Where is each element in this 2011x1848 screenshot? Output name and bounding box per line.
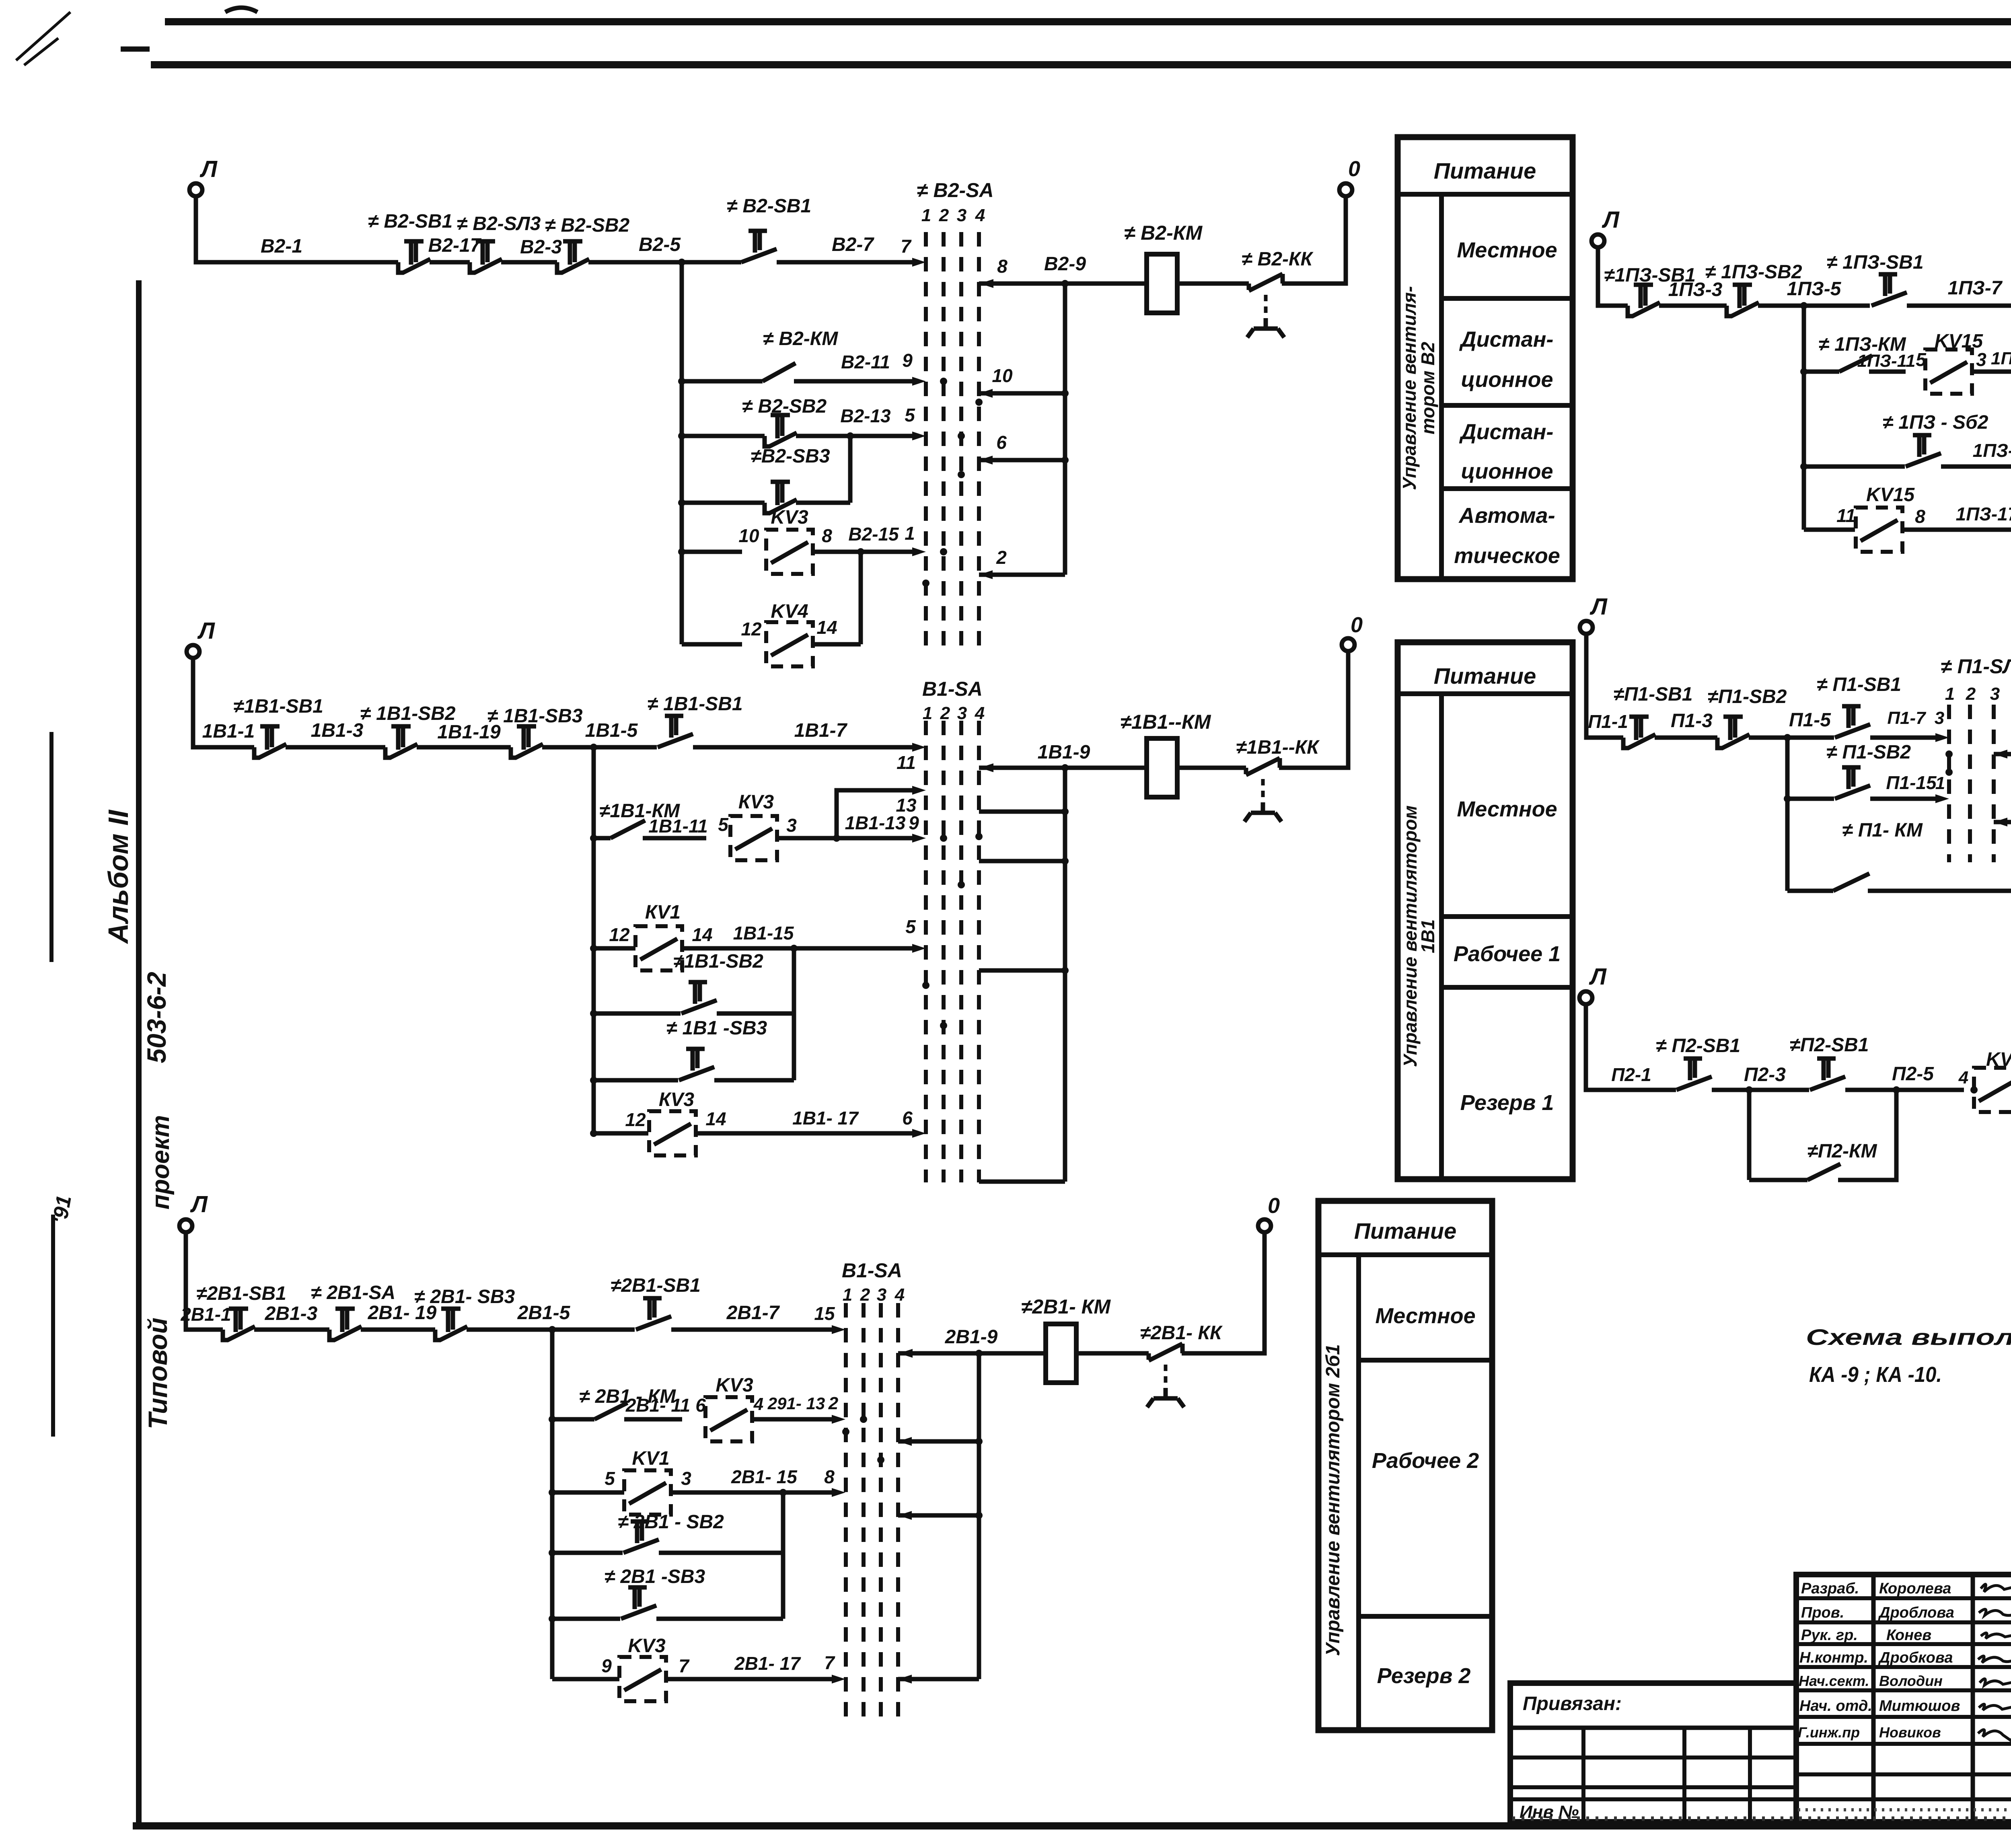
svg-text:3: 3 — [957, 206, 966, 225]
svg-text:Местное: Местное — [1457, 238, 1557, 262]
svg-text:ционное: ционное — [1461, 368, 1553, 392]
svg-text:≠ П1-SВ1: ≠ П1-SВ1 — [1817, 674, 1901, 695]
svg-text:КV3: КV3 — [659, 1089, 695, 1110]
svg-text:KV1: KV1 — [632, 1448, 669, 1469]
wire node 13 branch — [837, 786, 926, 838]
wire 1ПЗ-5 — [1758, 278, 1870, 309]
svg-text:≠2В1- КМ: ≠2В1- КМ — [1021, 1295, 1111, 1318]
svg-text:≠1В1-SВ2: ≠1В1-SВ2 — [673, 951, 763, 972]
svg-text:Резерв 2: Резерв 2 — [1377, 1664, 1471, 1688]
svg-text:≠ П1- КМ: ≠ П1- КМ — [1842, 820, 1923, 841]
svg-text:≠ В2-КМ: ≠ В2-КМ — [1124, 222, 1203, 244]
svg-text:2В1-3: 2В1-3 — [265, 1303, 318, 1324]
pushbutton В2-SB1 start (NO) — [727, 195, 811, 262]
svg-text:2В1- 17: 2В1- 17 — [734, 1653, 801, 1674]
svg-text:KV3: KV3 — [716, 1375, 753, 1396]
svg-text:тором В2: тором В2 — [1417, 341, 1438, 434]
svg-text:9: 9 — [601, 1655, 612, 1676]
svg-text:1: 1 — [1935, 773, 1945, 793]
svg-text:KV15: KV15 — [1866, 484, 1915, 506]
contact П2-КМ self-hold — [1749, 1090, 1896, 1180]
svg-text:4: 4 — [975, 206, 985, 225]
svg-text:14: 14 — [705, 1108, 726, 1129]
svg-text:5: 5 — [718, 814, 729, 835]
pushbutton 1ПЗ-SB2 (NC) — [1705, 261, 1802, 317]
wire 1ПЗ-17 — [1902, 503, 2011, 534]
pins 1 2 3 4 of В1-SA — [923, 703, 985, 723]
wire П2-3 — [1712, 1064, 1809, 1094]
svg-text:≠2В1- КК: ≠2В1- КК — [1140, 1322, 1223, 1344]
wire В2-11 — [794, 350, 926, 386]
wire КК to node 0 (1В1) — [1279, 650, 1348, 768]
svg-text:291- 13: 291- 13 — [767, 1394, 825, 1413]
contactor coil 1В1-КМ — [1121, 711, 1211, 797]
svg-text:В2-15: В2-15 — [848, 524, 899, 545]
svg-text:0: 0 — [1348, 157, 1360, 181]
staff row Разраб. Королева — [1801, 1580, 2011, 1597]
svg-text:КV3: КV3 — [738, 791, 774, 813]
svg-text:11: 11 — [1836, 505, 1856, 526]
switch В1-SA dashed columns (1В1) — [926, 721, 979, 1182]
relay contact KV14 (П2) — [1958, 1049, 2011, 1112]
node Л (2В1) — [179, 1191, 208, 1232]
wire KV1-SB2-SB3 link — [792, 948, 796, 1080]
wire SB2-SB3 link — [848, 436, 853, 503]
table В2 vertical label — [1399, 286, 1438, 490]
wire 1ПЗ-11 — [1857, 349, 1927, 372]
svg-text:Пров.: Пров. — [1801, 1604, 1844, 1621]
svg-text:14: 14 — [692, 924, 712, 945]
junction dots on SA columns B2 — [922, 378, 983, 587]
svg-text:2: 2 — [940, 703, 950, 723]
svg-text:KV4: KV4 — [771, 601, 808, 622]
svg-text:В2-13: В2-13 — [840, 405, 891, 426]
svg-text:≠ 1В1-SВ1: ≠ 1В1-SВ1 — [647, 693, 742, 715]
svg-text:≠ В2-SB2: ≠ В2-SB2 — [545, 215, 630, 236]
svg-text:12: 12 — [625, 1109, 646, 1130]
svg-text:2: 2 — [939, 206, 949, 225]
svg-text:2В1-7: 2В1-7 — [726, 1302, 780, 1324]
svg-text:1В1- 17: 1В1- 17 — [792, 1108, 859, 1129]
svg-text:4: 4 — [753, 1394, 763, 1414]
svg-text:1В1-15: 1В1-15 — [733, 923, 794, 944]
svg-text:0: 0 — [1351, 613, 1363, 637]
wire right rung a (2В1) — [898, 1437, 983, 1446]
junction B2 bus — [678, 259, 685, 266]
staff row Нач.сект. Володин — [1799, 1673, 2011, 1689]
pushbutton 1В1-SB3 (NC) — [487, 705, 582, 758]
svg-text:В2-17: В2-17 — [428, 235, 482, 256]
svg-text:10: 10 — [738, 525, 759, 546]
pushbutton П1-SB2 (NC) — [1708, 686, 1787, 748]
table 2В1 vertical label — [1322, 1344, 1344, 1656]
node Л (П1) — [1580, 594, 1608, 634]
pushbutton П1-SB1 start (NO) — [1817, 674, 1901, 738]
staff row Н.контр. Дробкова — [1799, 1649, 2011, 1666]
wire П1-7 — [1870, 708, 1949, 742]
wire 2В1-7 — [671, 1302, 833, 1330]
svg-text:КV1: КV1 — [645, 902, 681, 923]
node Л (П2) — [1579, 964, 1607, 1004]
relay contact KV3 lower (1В1) — [590, 1089, 726, 1155]
svg-text:1В1-5: 1В1-5 — [585, 720, 638, 741]
svg-text:≠ 2В1-SА: ≠ 2В1-SА — [311, 1282, 395, 1303]
svg-text:2: 2 — [1966, 684, 1976, 704]
pins 1 2 3 4 of В2-SA — [921, 206, 985, 225]
wire right rung bottom (2В1) — [898, 1675, 979, 1684]
svg-text:Резерв 1: Резерв 1 — [1460, 1091, 1554, 1115]
svg-text:≠П2-КМ: ≠П2-КМ — [1807, 1141, 1877, 1162]
left bus 2В1 — [550, 1330, 555, 1679]
svg-text:KV3: KV3 — [771, 507, 808, 528]
staff row Нач.отд. Митюшов — [1799, 1698, 2011, 1714]
svg-text:7: 7 — [901, 236, 912, 257]
pushbutton 2В1-SB3 (NC) — [414, 1286, 515, 1340]
wire КМ to КК — [1177, 282, 1249, 286]
svg-text:Дистан-: Дистан- — [1459, 420, 1554, 444]
svg-text:П2-5: П2-5 — [1892, 1063, 1934, 1085]
node 8 / wire В2-9 — [979, 253, 1147, 288]
svg-text:15: 15 — [814, 1303, 835, 1324]
thermal relay В2-КК — [1242, 249, 1314, 337]
pushbutton 1В1-SB3 rung (NO) — [590, 1018, 794, 1084]
svg-text:2В1- 15: 2В1- 15 — [731, 1466, 798, 1487]
svg-text:0: 0 — [1268, 1194, 1280, 1218]
svg-text:П1-1: П1-1 — [1588, 711, 1628, 732]
wire В2-13 — [796, 405, 926, 440]
svg-text:Г.инж.пр: Г.инж.пр — [1798, 1724, 1860, 1741]
contactor coil 2В1-КМ — [1021, 1295, 1111, 1383]
svg-text:≠ П1-SЛ: ≠ П1-SЛ — [1941, 655, 2011, 678]
left bus П1 — [1785, 738, 1790, 891]
svg-text:1ПЗ-5: 1ПЗ-5 — [1787, 278, 1842, 300]
svg-text:'91: '91 — [48, 1194, 76, 1225]
node Л (1ПЗ) — [1592, 207, 1620, 247]
svg-text:≠ 2В1- SВ3: ≠ 2В1- SВ3 — [414, 1286, 515, 1307]
wire В2-15 — [813, 523, 926, 556]
svg-text:Л: Л — [199, 156, 218, 182]
svg-text:≠ П2-SВ1: ≠ П2-SВ1 — [1656, 1035, 1740, 1057]
pushbutton 2В1-SB1 (NC) — [196, 1283, 286, 1340]
wire right rung c — [979, 967, 1069, 974]
relay contact KV15 (1ПЗ rung) — [1925, 331, 1986, 394]
svg-text:6: 6 — [902, 1108, 913, 1129]
relay contact KV3 (2В1 rung) — [705, 1375, 763, 1441]
svg-text:Л: Л — [197, 618, 215, 644]
pushbutton 1ПЗ-SB2 rung (NO) — [1800, 412, 1988, 470]
svg-text:2: 2 — [996, 547, 1007, 568]
svg-text:2В1-9: 2В1-9 — [945, 1326, 998, 1348]
thermal relay 1В1-КК — [1236, 737, 1320, 822]
svg-text:9: 9 — [902, 350, 913, 371]
svg-text:1: 1 — [843, 1285, 852, 1305]
staff row Г.инж.пр. Новиков — [1798, 1724, 2011, 1741]
svg-text:1: 1 — [905, 523, 915, 544]
svg-text:1ПЗ-7: 1ПЗ-7 — [1948, 278, 2003, 299]
svg-text:ционное: ционное — [1461, 459, 1553, 483]
contact 1В1-КМ self-hold — [590, 800, 680, 842]
svg-text:1В1: 1В1 — [1417, 919, 1438, 953]
left bus П2 — [1747, 1090, 1752, 1180]
svg-text:8: 8 — [822, 525, 832, 546]
pushbutton П1-SB1 (NC) — [1614, 684, 1693, 748]
staff signatures — [1978, 1584, 2011, 1741]
contactor coil В2-КМ — [1124, 222, 1203, 313]
wire Л to rail 2В1 — [186, 1231, 223, 1330]
svg-text:тическое: тическое — [1454, 544, 1560, 568]
wire В2-5 — [588, 234, 741, 262]
svg-text:Типовой: Типовой — [143, 1318, 173, 1429]
svg-text:5: 5 — [605, 1468, 615, 1489]
svg-text:4: 4 — [894, 1285, 905, 1305]
wire 1В1-17 — [696, 1108, 926, 1138]
relay contact KV3 (1В1 rung) — [730, 791, 797, 860]
switch В2-SA dashed columns — [926, 232, 979, 656]
svg-text:≠П2-SВ1: ≠П2-SВ1 — [1790, 1034, 1869, 1056]
relay contact KV1 (2В1) — [549, 1448, 691, 1515]
svg-text:1ПЗ-17: 1ПЗ-17 — [1956, 504, 2011, 524]
svg-text:≠ В2-SЛ3: ≠ В2-SЛ3 — [457, 213, 541, 234]
svg-text:Местное: Местное — [1457, 797, 1557, 821]
svg-text:Королева: Королева — [1879, 1580, 1951, 1597]
wire KV1-SB2-SB3 link (2В1) — [781, 1492, 785, 1619]
svg-text:1В1-11: 1В1-11 — [648, 816, 707, 837]
svg-text:≠ В2-КК: ≠ В2-КК — [1242, 249, 1314, 270]
svg-text:1В1-1: 1В1-1 — [202, 721, 255, 742]
wire 1В1-13 — [777, 812, 926, 843]
pushbutton 1ПЗ-SB1 start (NO) — [1826, 252, 1923, 306]
svg-text:Питание: Питание — [1434, 663, 1536, 689]
wire В2-3 — [501, 236, 562, 262]
svg-text:≠ В2-SB1: ≠ В2-SB1 — [727, 195, 811, 217]
svg-text:В1-SA: В1-SA — [842, 1259, 902, 1282]
wire П2-5 — [1845, 1063, 1964, 1094]
staff row Пров. Дроблова — [1801, 1604, 2011, 1621]
pushbutton В2-SB2 rung (NC) — [678, 396, 827, 447]
node 7 — [901, 236, 926, 267]
svg-text:8: 8 — [824, 1466, 835, 1487]
svg-text:≠П1-SВ1: ≠П1-SВ1 — [1614, 684, 1693, 705]
pushbutton 2В1-SA (NC) — [311, 1282, 395, 1340]
svg-text:1: 1 — [921, 206, 931, 225]
table В2 row Дистанционное 2 — [1459, 420, 1554, 483]
wire П1-3 — [1655, 710, 1717, 738]
svg-text:П1-3: П1-3 — [1671, 710, 1713, 732]
svg-text:Конев: Конев — [1886, 1627, 1931, 1644]
svg-text:П1-5: П1-5 — [1789, 709, 1831, 731]
svg-text:Володин: Володин — [1879, 1673, 1943, 1689]
svg-text:КА -9 ; КА -10.: КА -9 ; КА -10. — [1809, 1363, 1942, 1387]
wire 2В1-15 — [671, 1466, 845, 1497]
pushbutton 2В1-SB2 (NO) — [549, 1511, 783, 1556]
svg-text:≠ 1В1 -SВ3: ≠ 1В1 -SВ3 — [666, 1018, 767, 1039]
wire KV3-KV4 link — [859, 552, 863, 644]
svg-text:1В1-3: 1В1-3 — [311, 720, 364, 741]
svg-text:12: 12 — [741, 619, 762, 639]
svg-text:7: 7 — [824, 1652, 835, 1673]
pushbutton 1В1-SB2 (NC) — [360, 703, 455, 758]
wire right rung bottom — [979, 1180, 1065, 1184]
wire КМ to КК (2В1) — [1076, 1351, 1149, 1356]
node Л (1В1) — [187, 618, 215, 658]
wire Л to rail 1В1 — [193, 657, 254, 747]
svg-text:1ПЗ-11: 1ПЗ-11 — [1857, 351, 1916, 371]
svg-text:5: 5 — [905, 405, 915, 426]
wire 1ПЗ-13 — [1972, 349, 2011, 376]
pushbutton П2-SB1b (NO) — [1790, 1034, 1869, 1090]
wire right rung a — [979, 808, 1069, 815]
wire П1-5 — [1749, 709, 1834, 741]
svg-text:14: 14 — [816, 617, 837, 638]
svg-text:≠ П1-SВ2: ≠ П1-SВ2 — [1826, 742, 1911, 763]
svg-text:Питание: Питание — [1354, 1218, 1457, 1244]
svg-text:KV3: KV3 — [628, 1635, 666, 1657]
svg-text:Управление вентилятором 2б1: Управление вентилятором 2б1 — [1322, 1344, 1344, 1656]
svg-text:Местное: Местное — [1375, 1304, 1475, 1328]
right bus 2В1 — [977, 1353, 981, 1679]
wire 1В1-19 — [417, 722, 511, 747]
svg-text:3: 3 — [957, 703, 967, 723]
relay contact KV3 (B2) — [678, 507, 832, 574]
wire 1В1-9 — [979, 742, 1147, 772]
svg-text:В2-9: В2-9 — [1044, 253, 1086, 275]
wire П1-15 — [1870, 772, 1949, 803]
svg-text:Разраб.: Разраб. — [1801, 1580, 1859, 1597]
svg-text:2В1-1: 2В1-1 — [180, 1304, 231, 1325]
svg-text:≠2В1-SВ1: ≠2В1-SВ1 — [611, 1275, 701, 1296]
svg-text:Л: Л — [1589, 594, 1608, 620]
svg-text:4: 4 — [1958, 1068, 1968, 1087]
svg-text:11: 11 — [897, 752, 916, 773]
svg-text:В2-5: В2-5 — [639, 234, 681, 255]
wire В2-17 — [428, 235, 482, 262]
switch В1-SA dashed columns (2В1) — [846, 1303, 898, 1721]
wire КК to node 0 (2В1) — [1182, 1231, 1265, 1353]
svg-text:Схема выполнена на лис: Схема выполнена на листах· — [1806, 1324, 2011, 1350]
svg-text:В2-11: В2-11 — [841, 352, 890, 372]
relay contact KV3 lower (2В1) — [552, 1635, 690, 1701]
svg-text:≠ 1ПЗ-SB1: ≠ 1ПЗ-SB1 — [1826, 252, 1923, 273]
svg-text:В2-3: В2-3 — [520, 236, 562, 258]
pins 1 2 3 of П1-SA — [1945, 684, 2000, 704]
pushbutton 1В1-SB1 start (NO) — [647, 693, 742, 747]
svg-text:2В1-5: 2В1-5 — [517, 1302, 571, 1324]
svg-text:1: 1 — [923, 703, 932, 723]
svg-text:В1-SA: В1-SA — [922, 678, 983, 700]
svg-text:3: 3 — [1990, 684, 2000, 704]
wire 1В1-5 — [542, 720, 657, 751]
wire Л to rail B2 — [196, 195, 398, 262]
svg-text:Л: Л — [190, 1191, 208, 1217]
svg-text:≠ В2-КМ: ≠ В2-КМ — [763, 328, 839, 349]
left bus 1В1 — [592, 747, 596, 1133]
svg-text:Питание: Питание — [1434, 158, 1536, 183]
svg-text:П2-3: П2-3 — [1744, 1064, 1786, 1085]
switch П1-SA dashed columns — [1949, 705, 1994, 862]
svg-text:3: 3 — [786, 815, 797, 836]
node 11 — [897, 743, 926, 773]
svg-text:1В1-9: 1В1-9 — [1038, 742, 1090, 763]
wire right rung b (2В1) — [898, 1511, 983, 1520]
svg-text:Рабочее 2: Рабочее 2 — [1372, 1449, 1479, 1473]
svg-text:проект: проект — [147, 1115, 175, 1210]
wire 1ПЗ-15 — [1941, 439, 2011, 471]
relay contact KV15 lower (1ПЗ) — [1804, 484, 1925, 552]
svg-text:≠ В2-SB2: ≠ В2-SB2 — [742, 396, 827, 417]
svg-text:≠В2-SB3: ≠В2-SB3 — [751, 446, 830, 467]
wire 2В1-9 — [898, 1326, 1046, 1358]
relay contact KV4 (B2) — [682, 601, 861, 666]
svg-text:1: 1 — [1945, 684, 1955, 704]
svg-text:1ПЗ-13: 1ПЗ-13 — [1991, 349, 2011, 368]
svg-text:8: 8 — [1915, 506, 1925, 527]
svg-text:7: 7 — [679, 1655, 690, 1676]
svg-text:1ПЗ-15: 1ПЗ-15 — [1973, 440, 2011, 461]
junction dots on SA columns 1В1 — [922, 833, 983, 1029]
svg-text:≠П1-SВ2: ≠П1-SВ2 — [1708, 686, 1787, 707]
pushbutton П1-SB2 rung (NO) — [1784, 742, 1911, 802]
wire 2В1-11 — [624, 1395, 706, 1419]
junction dots on SA columns 2В1 — [842, 1416, 884, 1464]
svg-text:≠1В1-SВ1: ≠1В1-SВ1 — [233, 696, 323, 717]
pushbutton 1В1-SB1 (NC) — [233, 696, 323, 758]
svg-text:≠ 2В1 -SВ3: ≠ 2В1 -SВ3 — [605, 1566, 705, 1587]
contact П1-КМ self-hold — [1787, 754, 2011, 891]
thermal relay 2В1-КК — [1140, 1322, 1223, 1407]
svg-text:503-6-2: 503-6-2 — [142, 972, 171, 1063]
wire 1В1-11 — [643, 814, 729, 838]
svg-text:5: 5 — [905, 916, 916, 937]
svg-text:6: 6 — [996, 432, 1007, 453]
pushbutton 1В1-SB2 rung (NO) — [590, 951, 794, 1017]
svg-text:≠ 2В1 - SВ2: ≠ 2В1 - SВ2 — [618, 1511, 724, 1533]
junction dots on SA columns П1 — [1945, 750, 1953, 776]
svg-text:Дистан-: Дистан- — [1459, 327, 1554, 352]
left bus 1ПЗ — [1802, 306, 1806, 530]
svg-text:Нач.сект.: Нач.сект. — [1799, 1673, 1869, 1689]
wire 2В1-19 — [361, 1302, 437, 1330]
svg-text:Привязан:: Привязан: — [1523, 1693, 1622, 1714]
svg-text:4: 4 — [975, 703, 985, 723]
svg-text:Н.контр.: Н.контр. — [1799, 1649, 1868, 1666]
node 0 (B2) — [1339, 157, 1360, 196]
svg-text:2: 2 — [828, 1394, 839, 1413]
wire 2В1-5 — [467, 1302, 635, 1333]
svg-text:≠ 1ПЗ - Sб2: ≠ 1ПЗ - Sб2 — [1883, 412, 1988, 433]
relay contact KV1 (1В1) — [590, 902, 713, 970]
contact 1ПЗ-КМ self-hold — [1800, 334, 1906, 375]
svg-text:3: 3 — [1976, 349, 1986, 370]
wire right rung b — [979, 857, 1069, 865]
right bus 1В1 — [1063, 768, 1067, 1182]
wire rung 2 (П1) — [1994, 797, 2011, 826]
right bus B2 — [1063, 284, 1067, 575]
pushbutton 2В1-SB3 (NO) — [549, 1566, 783, 1622]
staff row Рук.гр. Конев — [1801, 1627, 2011, 1644]
svg-text:9: 9 — [909, 812, 919, 833]
table 1В1 vertical label — [1400, 806, 1438, 1067]
svg-text:Альбом II: Альбом II — [103, 810, 134, 944]
wire rung 10 — [979, 365, 1069, 398]
svg-text:3: 3 — [1935, 708, 1944, 728]
svg-text:12: 12 — [609, 924, 630, 945]
svg-text:В2-7: В2-7 — [832, 234, 874, 255]
wire КМ to КК (1В1) — [1177, 766, 1246, 770]
svg-text:1В1-13: 1В1-13 — [845, 812, 906, 833]
svg-text:Рабочее 1: Рабочее 1 — [1454, 942, 1561, 966]
node 0 (2В1) — [1258, 1194, 1280, 1232]
wire 2В1-3 — [254, 1303, 329, 1330]
